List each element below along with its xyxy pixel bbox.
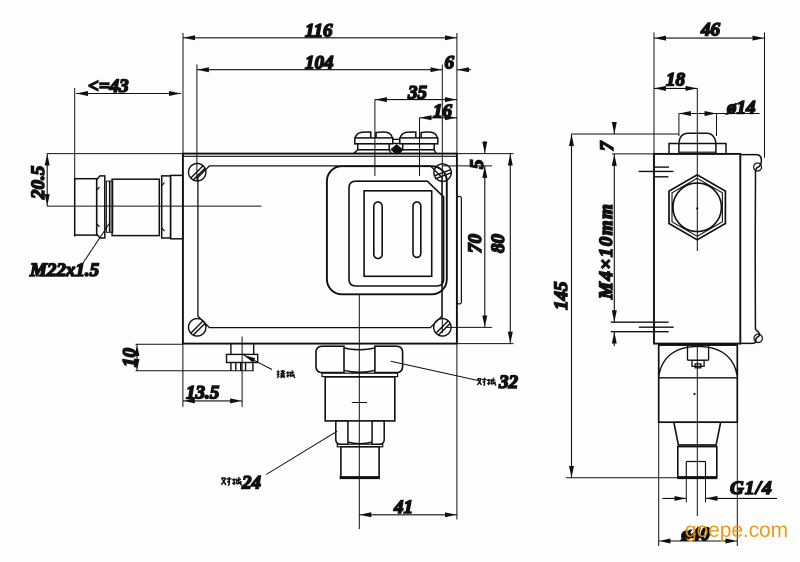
ext lines G1/4 [686, 478, 705, 502]
label 接地 [277, 370, 296, 378]
ext line cap left centre [374, 100, 376, 176]
svg-text:20.5: 20.5 [28, 165, 49, 200]
side hex24 trapezoid [674, 422, 721, 445]
svg-text:7: 7 [597, 140, 618, 151]
ext line dome top level [571, 133, 679, 135]
svg-text:116: 116 [305, 21, 333, 42]
dimension 116 [183, 37, 457, 39]
svg-text:32: 32 [498, 372, 519, 393]
ext lines diameter 14 [679, 114, 717, 137]
svg-text:16: 16 [433, 101, 453, 122]
terminal screw cap right: skirt [399, 150, 437, 154]
cover clip top [754, 163, 762, 171]
hex nut 32 front: middle facet arcs [344, 348, 375, 372]
dimension 41 [359, 514, 457, 516]
dimension 20.5 [46, 154, 48, 207]
terminal screw cap right: dome halves with slot [400, 132, 437, 138]
plug flange [669, 144, 726, 154]
hex nut 24 front: right facet [372, 421, 384, 444]
dimension 10 [136, 344, 138, 371]
diamond pointer between caps [391, 145, 402, 155]
side hexagon inner [672, 178, 722, 236]
port centre line [352, 295, 367, 530]
label 对地32 [477, 378, 496, 385]
ext line body right (top to 41 dim) [456, 33, 458, 520]
terminal screw cap left: base [358, 144, 390, 150]
slot left [374, 202, 382, 259]
connector housing [325, 377, 395, 421]
svg-text:18: 18 [666, 70, 686, 91]
dimension 145 [571, 134, 573, 478]
ext line body left top [182, 33, 184, 153]
cover clip bottom [754, 334, 762, 342]
dimension 35 [375, 99, 457, 101]
side port thick end [677, 476, 717, 479]
leader M22x1.5 [82, 222, 111, 265]
bottom screw side marks [611, 322, 674, 332]
ext line 10 bottom / tab bottom [136, 370, 254, 372]
svg-text:<=43: <=43 [88, 76, 129, 97]
dimension diameter 40 [659, 540, 738, 542]
side cover profile [740, 155, 761, 344]
terminal screw cap right: base [403, 144, 435, 150]
dimension <=43 [76, 93, 181, 95]
ext line 10 top [136, 343, 183, 345]
body outline [183, 154, 457, 344]
ext line screw left [196, 65, 198, 182]
side nut stem [688, 345, 709, 368]
ground tab centre line [241, 337, 243, 407]
ext lines diameter 40 [659, 423, 738, 546]
ext line cap right centre [419, 118, 421, 176]
ext line side cover right [764, 33, 766, 158]
washer under nut 32 [322, 373, 398, 376]
ext line 145 bottom [566, 477, 677, 479]
washer under nut 24 [337, 444, 382, 447]
inner mounting plate (chamfered rectangle) [198, 166, 442, 328]
dimension 5 [484, 141, 486, 154]
svg-text:G1/4: G1/4 [730, 478, 773, 499]
leader 接地 [244, 355, 273, 370]
ext line gland left [74, 88, 76, 237]
plug dome [679, 133, 716, 143]
ext line body bottom right [457, 343, 514, 345]
hex nut 24 front: left facet [336, 421, 348, 444]
slot right [413, 202, 421, 258]
switch cover panel inner [349, 181, 444, 286]
cable gland: thin rings [106, 181, 112, 232]
hex nut 24 front: middle facet arcs [348, 442, 372, 444]
screw bottom-left [189, 319, 206, 336]
side port [678, 447, 717, 478]
dimension 18 [654, 87, 697, 89]
pressure port front thick end [340, 476, 380, 479]
ext line plate top right [442, 165, 492, 167]
side centre line [696, 88, 698, 516]
svg-text:46: 46 [700, 20, 721, 41]
body lid seam line [183, 155, 457, 157]
switch cover panel outer [327, 166, 447, 294]
dimension 46 [654, 37, 765, 39]
svg-text:80: 80 [488, 234, 509, 254]
dimension 6 [457, 69, 471, 71]
svg-text:M4×10mm: M4×10mm [596, 203, 617, 300]
svg-text:goepe.com: goepe.com [685, 519, 788, 542]
gland centre line [47, 205, 262, 207]
dimension 70 [484, 166, 486, 328]
ext line screw right column [441, 65, 443, 334]
side hexagon [669, 175, 725, 240]
terminal screw cap right: collar [400, 138, 438, 144]
leader 对地24 [266, 431, 337, 474]
link between caps [393, 139, 400, 143]
dimension 80 [509, 154, 511, 344]
screw bottom-right [434, 319, 451, 336]
ext line side body left top [653, 33, 655, 154]
cable gland: barrel [112, 179, 159, 235]
side nut centre dot [693, 393, 695, 395]
dimension diameter 14 [679, 113, 760, 115]
dimension M4 screw line [613, 154, 615, 346]
svg-text:13.5: 13.5 [186, 383, 220, 404]
svg-text:104: 104 [305, 53, 334, 74]
dimension 7 [613, 124, 615, 135]
pressure port front [341, 447, 379, 477]
leader 对地32 [391, 361, 478, 380]
dimension 13.5 [183, 400, 242, 402]
side port thread lines [686, 462, 705, 478]
top screw side marks [639, 167, 674, 177]
slot box [364, 191, 432, 276]
hex nut 32 front: left facet [316, 346, 344, 372]
terminal screw cap left: dome halves with slot [355, 132, 392, 138]
svg-text:24: 24 [241, 473, 261, 494]
side nut chamfer arc [659, 346, 738, 377]
terminal screw cap left: skirt [354, 150, 392, 154]
screw top-right [434, 164, 452, 181]
ext line top edge left [47, 153, 183, 155]
svg-text:145: 145 [551, 281, 572, 310]
ext line plate bottom right [447, 326, 493, 328]
dimension G1/4 [663, 497, 778, 499]
svg-text:M22x1.5: M22x1.5 [29, 260, 100, 281]
hexagon circle [673, 183, 721, 231]
cable gland: entry sleeve [75, 179, 97, 235]
cable gland: cap nut [97, 176, 105, 238]
svg-text:70: 70 [465, 234, 486, 254]
ext line body top right [457, 153, 514, 155]
label 对地24 [221, 477, 242, 485]
terminal screw cap left: collar [355, 138, 393, 144]
side nut block [659, 345, 738, 422]
cable gland: lock ring [162, 176, 171, 238]
dimension 104 [197, 69, 442, 71]
side body outline [654, 154, 740, 344]
ext line side top left [612, 153, 654, 155]
hex nut 32 front: right facet [375, 346, 403, 372]
svg-text:35: 35 [407, 83, 428, 104]
svg-text:6: 6 [445, 53, 455, 74]
svg-text:41: 41 [393, 497, 413, 518]
ground tab under body [227, 344, 258, 371]
svg-text:ø14: ø14 [726, 98, 756, 119]
side tab on right edge [457, 196, 462, 304]
dimension 16 [420, 117, 457, 119]
svg-text:10: 10 [120, 348, 141, 368]
hexagon centre dot [696, 207, 698, 209]
cable gland: spacer to body [171, 175, 183, 238]
ext line body left bottom [182, 344, 184, 407]
screw top-left [189, 164, 206, 181]
